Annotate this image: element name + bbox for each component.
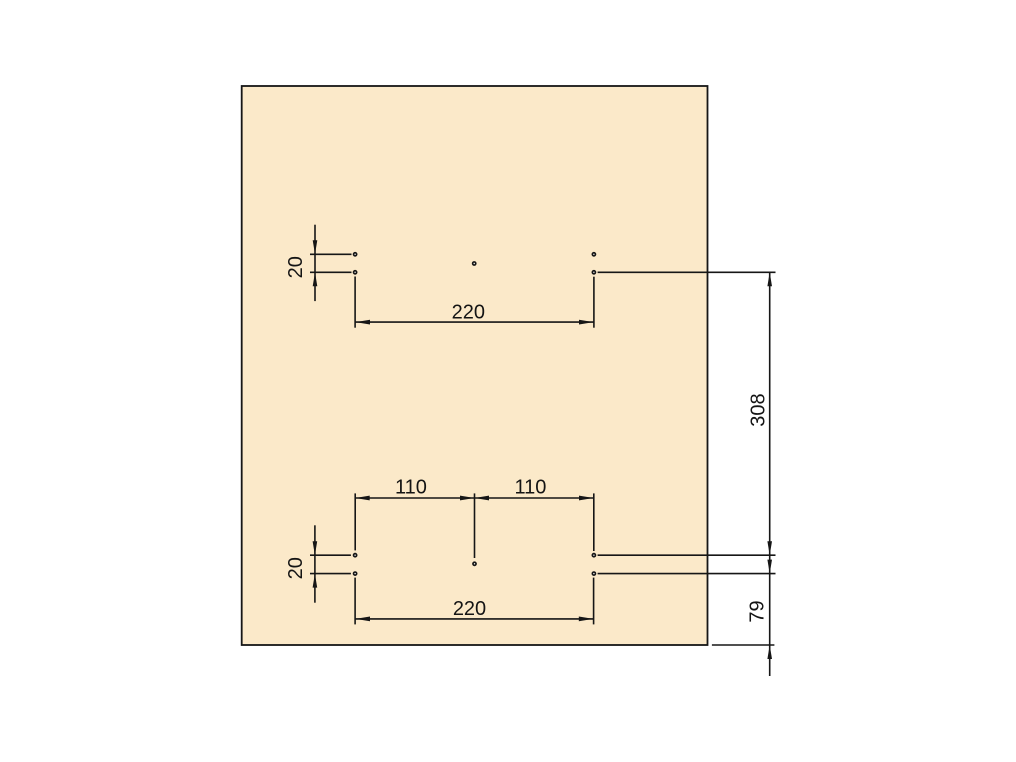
- upper 220 arrow left: [356, 320, 371, 325]
- lower-right hole leader line row2: [598, 573, 776, 575]
- upper 20 arrow down: [313, 240, 318, 254]
- lower 20 arrow up: [313, 574, 318, 588]
- lower 20 dim extension line row1: [310, 554, 351, 556]
- 110 extension line center: [474, 493, 476, 558]
- upper-right hole leader line: [598, 271, 776, 273]
- lower 20 label: [285, 557, 307, 579]
- 308 arrow down: [767, 541, 772, 555]
- 308 dim line: [769, 272, 771, 676]
- svg-text:110: 110: [395, 476, 427, 498]
- upper 220 dim line: [356, 321, 594, 323]
- svg-text:220: 220: [452, 301, 485, 323]
- 308 arrow up: [767, 272, 772, 286]
- svg-text:20: 20: [285, 557, 307, 579]
- hole lower-center: [473, 562, 476, 565]
- 79 label: [747, 600, 769, 622]
- lower 220 dim line: [356, 618, 594, 620]
- hole lower-left row2: [354, 572, 357, 575]
- 110 arrow center-left: [460, 496, 475, 501]
- svg-text:79: 79: [747, 600, 769, 622]
- hole lower-left row1: [354, 554, 357, 557]
- upper 20 label: [285, 256, 307, 278]
- hole upper-right row2: [592, 271, 595, 274]
- upper 220 extension line right: [593, 277, 595, 328]
- lower 220 extension line right: [593, 578, 595, 625]
- svg-text:308: 308: [748, 393, 770, 426]
- lower 220 extension line left: [354, 578, 356, 625]
- 308 label: [748, 393, 770, 426]
- lower 20 dim extension line row2: [310, 573, 351, 575]
- lower 20 arrow down: [313, 541, 318, 555]
- hole lower-right row2: [592, 572, 595, 575]
- 110 dim line: [355, 497, 593, 499]
- upper 20 dim extension line row1: [310, 253, 352, 255]
- svg-text:110: 110: [515, 476, 547, 498]
- svg-text:20: 20: [285, 256, 307, 278]
- upper 220 extension line left: [354, 277, 356, 328]
- upper 20 arrow up: [313, 272, 318, 286]
- 110 arrow center-right: [475, 496, 490, 501]
- hole upper-left row2: [354, 271, 357, 274]
- hole upper-center: [473, 262, 476, 265]
- upper 20 dim extension line row2: [310, 271, 352, 273]
- lower-right hole leader line row1: [598, 554, 776, 556]
- hole lower-right row1: [592, 554, 595, 557]
- 79 arrow up: [767, 645, 772, 659]
- panel: [242, 86, 708, 645]
- hole upper-right row1: [592, 253, 595, 256]
- upper 220 arrow right: [579, 320, 594, 325]
- 110 extension line left: [354, 493, 356, 550]
- upper 20 dim line: [314, 225, 316, 301]
- hole upper-left row1: [354, 253, 357, 256]
- lower 220 arrow right: [579, 617, 594, 622]
- lower 20 dim line: [314, 525, 316, 602]
- bottom edge extension line: [712, 644, 775, 646]
- 110 arrow far-left: [355, 496, 370, 501]
- svg-text:220: 220: [453, 598, 486, 620]
- 110 arrow far-right: [579, 496, 594, 501]
- 110 extension line right: [593, 493, 595, 551]
- 79 arrow down: [767, 560, 772, 574]
- lower 220 arrow left: [356, 617, 371, 622]
